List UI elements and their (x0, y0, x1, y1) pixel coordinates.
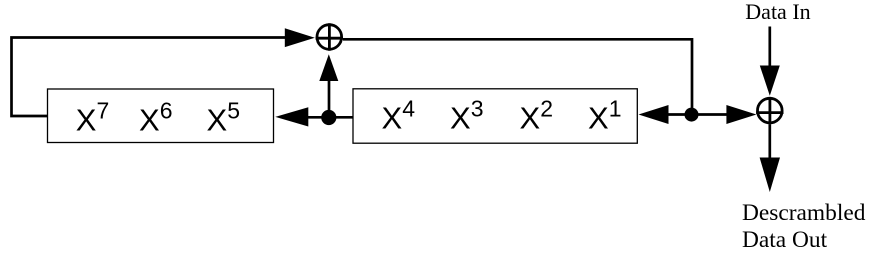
svg-text:X: X (450, 101, 471, 136)
arrowhead into top XOR (285, 28, 315, 47)
svg-text:3: 3 (471, 96, 484, 122)
wire: right box to right XOR (668, 113, 727, 116)
shift register stage box X7 X6 X5 (48, 89, 274, 143)
junction dot right tap (685, 108, 699, 122)
svg-text:1: 1 (609, 96, 622, 122)
svg-text:7: 7 (97, 98, 110, 124)
arrowhead into top XOR bottom (319, 54, 338, 81)
wire: mid tap between boxes (307, 116, 353, 119)
wire: right XOR down to output (768, 124, 771, 159)
svg-text:X: X (382, 101, 403, 136)
svg-text:X: X (588, 101, 609, 136)
svg-text:4: 4 (402, 96, 415, 122)
svg-text:X: X (76, 103, 97, 138)
xor adder U1 (top) (316, 23, 343, 50)
xor adder U2 (right) (756, 97, 783, 124)
svg-text:X: X (520, 101, 541, 136)
svg-text:2: 2 (540, 96, 553, 122)
arrowhead into right XOR (726, 105, 756, 124)
wire: Data In down to right XOR (768, 27, 771, 69)
wire feedback: left box to top XOR (12, 38, 289, 117)
svg-text:X: X (207, 103, 228, 138)
wire: top XOR to right vertical drop (343, 39, 692, 110)
arrowhead output (760, 158, 780, 193)
svg-text:Data Out: Data Out (742, 227, 828, 253)
svg-text:Data In: Data In (745, 0, 810, 24)
svg-text:5: 5 (227, 98, 240, 124)
svg-text:6: 6 (160, 98, 173, 124)
junction dot mid tap (321, 110, 336, 125)
svg-text:X: X (139, 103, 160, 138)
arrowhead into right box (639, 105, 669, 124)
wire: mid tap up to top XOR (328, 78, 331, 118)
svg-text:Descrambled: Descrambled (742, 200, 866, 226)
arrowhead into left box (275, 107, 308, 126)
shift register stage box X4 X3 X2 X1 (353, 89, 637, 143)
arrowhead Data In (760, 66, 780, 96)
